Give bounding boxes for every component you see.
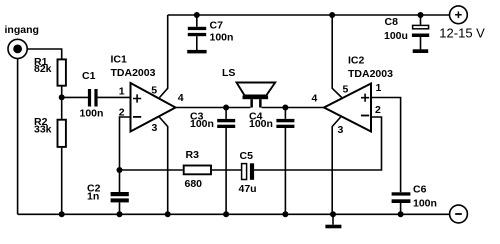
wire C7 bottom stem to ground	[196, 36, 198, 50]
junction node feedback/C2	[117, 167, 123, 173]
svg-text:100n: 100n	[190, 118, 214, 130]
svg-text:IC2: IC2	[348, 54, 365, 66]
svg-text:2: 2	[119, 107, 125, 119]
svg-text:47u: 47u	[239, 183, 257, 195]
op-amp IC2 plus input mark	[361, 94, 369, 102]
junction node output C4	[282, 105, 288, 111]
capacitor C5 electrolytic	[242, 163, 254, 180]
svg-text:2: 2	[375, 104, 381, 116]
resistor R3	[184, 166, 211, 175]
wire IC1 pin3 to ground rail	[159, 117, 167, 214]
capacitor C4	[276, 119, 294, 128]
svg-text:100n: 100n	[249, 118, 273, 130]
svg-text:100u: 100u	[384, 30, 408, 42]
junction node R1/R2/C1	[59, 94, 65, 100]
wire IC2 pin3 to ground rail	[332, 117, 341, 214]
svg-text:3: 3	[152, 122, 158, 134]
wire IC2 pin5 from supply rail	[332, 15, 342, 98]
wire C5 to IC2 pin2 loop	[254, 117, 381, 170]
minus supply terminal	[450, 205, 468, 223]
wire feedback node to R3 left	[120, 169, 183, 171]
plus supply terminal	[450, 6, 468, 24]
resistor R1	[58, 59, 66, 85]
wire IC1 output to speaker left leg	[176, 107, 251, 109]
op-amp IC1 minus input mark	[133, 116, 141, 118]
svg-text:1n: 1n	[87, 190, 99, 202]
junction node rail R2	[59, 211, 65, 217]
speaker LS	[237, 83, 276, 108]
wire C2 bottom to ground rail	[119, 202, 121, 214]
junction node supply C8	[418, 12, 424, 18]
resistor R2	[58, 120, 66, 147]
ground bar below C8	[413, 49, 429, 53]
wire C1 right plate to IC1 pin1	[98, 96, 131, 98]
op-amp IC2 minus input mark	[361, 115, 369, 117]
junction node supply C7	[194, 12, 200, 18]
svg-text:5: 5	[343, 84, 349, 96]
wire input connector down to ground rail	[17, 59, 19, 214]
junction node rail IC1 pin3	[165, 211, 171, 217]
wire feedback node down to C2	[119, 170, 121, 192]
wire C4 bottom to ground rail	[284, 128, 286, 214]
wire speaker right leg to IC2 output	[262, 107, 324, 109]
capacitor C7	[188, 27, 206, 36]
wire IC1 pin5 from supply rail	[160, 15, 168, 98]
svg-text:33k: 33k	[34, 124, 52, 136]
wire top supply rail	[168, 14, 450, 16]
svg-text:TDA2003: TDA2003	[111, 67, 156, 79]
svg-text:82k: 82k	[34, 63, 52, 75]
wire C4 branch top	[284, 108, 286, 119]
junction node rail C4	[282, 211, 288, 217]
svg-text:IC1: IC1	[111, 54, 128, 66]
op-amp IC1 plus input mark	[133, 94, 141, 102]
svg-text:C8: C8	[385, 16, 399, 28]
svg-text:1: 1	[376, 82, 382, 94]
junction node rail C3	[223, 211, 229, 217]
wire C3 bottom to ground rail	[225, 128, 227, 214]
svg-text:R3: R3	[186, 149, 200, 161]
svg-text:12-15 V: 12-15 V	[439, 25, 485, 40]
svg-text:ingang: ingang	[5, 24, 39, 36]
svg-text:100n: 100n	[413, 198, 437, 210]
wire node to C1 left plate	[62, 96, 88, 98]
junction node output C3	[223, 105, 229, 111]
svg-text:LS: LS	[222, 67, 235, 79]
capacitor C8 electrolytic	[412, 25, 429, 37]
wire C8 top stem	[420, 15, 422, 25]
svg-text:TDA2003: TDA2003	[348, 68, 393, 80]
svg-text:5: 5	[151, 85, 157, 97]
ground bar below C7	[187, 50, 206, 54]
svg-text:C7: C7	[210, 19, 224, 31]
wire C8 bottom stem to ground	[420, 37, 422, 50]
svg-text:C5: C5	[240, 150, 254, 162]
svg-text:680: 680	[185, 178, 203, 190]
capacitor C2	[111, 192, 129, 202]
junction node rail C2	[117, 211, 123, 217]
svg-text:4: 4	[312, 92, 318, 104]
svg-text:1: 1	[119, 85, 125, 97]
junction node supply IC2 pin5	[329, 12, 335, 18]
op-amp IC1 triangle	[131, 83, 176, 132]
capacitor C1	[88, 89, 98, 107]
junction node rail C6	[398, 211, 404, 217]
capacitor C3	[217, 119, 235, 128]
op-amp IC2 triangle	[324, 84, 371, 132]
wire bottom ground rail	[18, 213, 450, 215]
svg-text:C6: C6	[413, 184, 427, 196]
junction node rail ground	[330, 211, 336, 217]
svg-text:100n: 100n	[210, 32, 234, 44]
wire ground symbol stub on rail	[332, 214, 334, 224]
wire C3 branch top	[225, 108, 227, 119]
wire C6 bottom to ground rail	[400, 203, 402, 214]
wire IC1 pin2 loop down to feedback node	[120, 117, 131, 170]
wire R1 bottom to R2 top through node	[61, 87, 63, 119]
svg-text:3: 3	[338, 124, 344, 136]
ground bar on bottom rail	[325, 225, 341, 229]
wire input to R1 top	[19, 49, 62, 59]
wire IC2 pin1 to C6 top	[371, 98, 401, 193]
capacitor C6	[392, 192, 411, 203]
svg-text:100n: 100n	[80, 108, 104, 120]
svg-text:4: 4	[178, 92, 184, 104]
wire C7 top stem	[196, 15, 198, 27]
svg-text:C1: C1	[82, 70, 96, 82]
wire R3 right to C5	[212, 169, 241, 171]
wire R2 bottom to ground rail	[61, 148, 63, 215]
input connector (ingang)	[8, 39, 27, 58]
